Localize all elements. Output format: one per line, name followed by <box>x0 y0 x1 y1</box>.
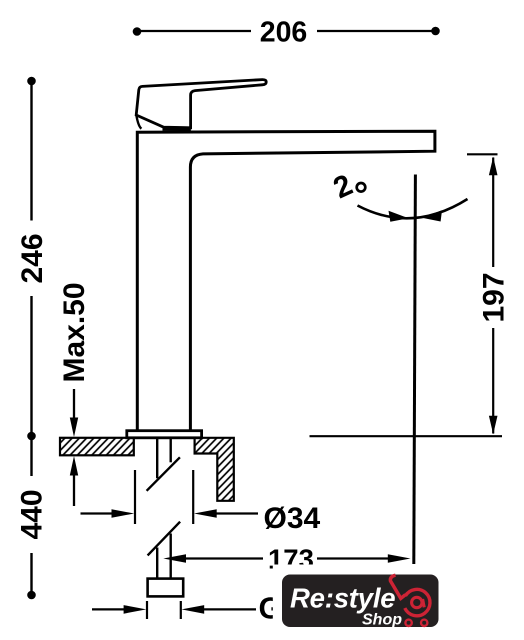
logo cart wheel right <box>421 620 427 626</box>
bottom dim left arrowhead <box>124 605 147 614</box>
svg-text:Shop: Shop <box>362 612 402 629</box>
Max.50 up arrowhead <box>70 456 78 476</box>
dimension 173 left line <box>181 557 263 559</box>
bottom dim left tick <box>146 601 148 619</box>
dimension 173 left arrowhead <box>163 554 186 563</box>
diameter 34 right arrowhead <box>194 509 217 518</box>
counter level reference line <box>310 435 503 437</box>
svg-text:440: 440 <box>16 489 49 539</box>
dimension 173 right arrowhead <box>388 554 411 563</box>
bottom fitting <box>148 579 184 597</box>
dimension 197 up arrowhead <box>489 157 498 176</box>
angle arc <box>358 199 468 218</box>
dimension 197 line upper <box>492 158 494 268</box>
dimension 206 line right segment <box>317 30 436 32</box>
logo cart wheel left <box>405 620 411 626</box>
dimension 173 right line <box>317 557 389 559</box>
countertop right slab L-shape hatched <box>195 438 234 501</box>
logo white backing <box>273 565 468 640</box>
shank line left <box>156 438 158 478</box>
svg-text:206: 206 <box>260 17 308 49</box>
svg-text:246: 246 <box>16 233 49 283</box>
faucet handle lever <box>136 80 266 128</box>
bottom dim right line <box>203 608 256 610</box>
dimension 197 line lower <box>492 328 494 434</box>
logo at-sign inner circle <box>412 597 422 607</box>
svg-text:197: 197 <box>478 272 511 322</box>
lower pipe line right <box>169 534 171 579</box>
Max.50 down arrowhead <box>70 418 78 438</box>
handle cheek curve <box>136 115 141 128</box>
dimension 206 left dot <box>133 27 142 36</box>
dimension 206 line left segment <box>137 30 251 32</box>
dimension 197 down arrowhead <box>489 416 498 435</box>
angle arc right arrowhead <box>422 210 442 221</box>
svg-text:Max.50: Max.50 <box>58 282 91 382</box>
dimension 206 right dot <box>431 27 440 36</box>
logo at-sign stem <box>423 599 425 607</box>
faucet body and spout outline <box>137 131 435 431</box>
logo at-sign outer ring <box>405 589 430 615</box>
Max.50 lower extension line <box>73 474 75 506</box>
bottom dim right tick <box>180 601 182 619</box>
left chain dot top <box>27 77 36 86</box>
angle arc left arrowhead <box>389 211 409 222</box>
dimension 197 top reference line <box>467 153 498 155</box>
shank line right <box>169 438 171 462</box>
diameter 34 left tick <box>134 470 136 524</box>
diameter 34 right tick <box>192 470 194 524</box>
svg-text:Re:style: Re:style <box>290 583 395 614</box>
left chain line bottom <box>30 553 32 595</box>
svg-text:Ø34: Ø34 <box>264 502 321 535</box>
left chain line middle <box>30 296 32 436</box>
handle base dark bar <box>163 126 191 131</box>
pipe break line upper <box>147 457 180 491</box>
base plate <box>127 431 202 438</box>
logo dark rounded rectangle <box>282 575 439 628</box>
diameter 34 left leader line <box>81 512 114 514</box>
bottom dim left line <box>92 608 128 610</box>
water stream line <box>414 175 416 565</box>
diameter 34 left arrowhead <box>112 509 135 518</box>
left chain dot bottom <box>27 591 36 600</box>
svg-text:2: 2 <box>328 168 357 205</box>
logo cart handle <box>390 575 405 598</box>
lower pipe line left <box>156 548 158 579</box>
Max.50 upper extension line <box>73 389 75 420</box>
left chain dot middle <box>27 432 36 441</box>
left chain line upper <box>30 81 32 221</box>
bottom dim right arrowhead <box>182 605 205 614</box>
degree symbol circle <box>357 183 366 192</box>
pipe break line lower <box>148 522 181 556</box>
diameter 34 right leader line <box>215 512 258 514</box>
countertop left slab hatched <box>60 438 134 456</box>
left chain line lower <box>30 436 32 476</box>
